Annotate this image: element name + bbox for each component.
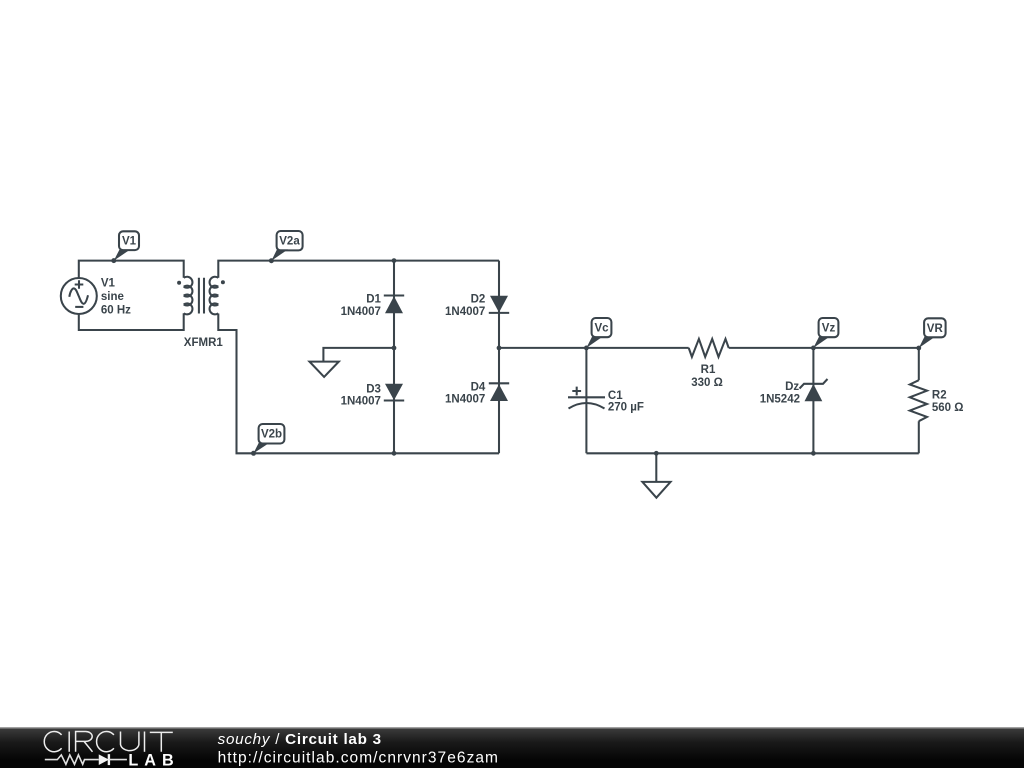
diode D2 [445,294,509,319]
wire bridge left branch [393,261,395,454]
svg-text:http://circuitlab.com/cnrvnr37: http://circuitlab.com/cnrvnr37e6zam [218,750,499,767]
svg-text:60 Hz: 60 Hz [101,304,131,316]
wire bridge right branch [498,261,500,454]
svg-text:LAB: LAB [128,752,179,768]
svg-text:560 Ω: 560 Ω [932,402,964,414]
node ground tap [654,451,659,456]
svg-text:1N4007: 1N4007 [445,306,485,318]
node Dz bottom junction [811,451,816,456]
wire primary bottom [79,313,184,330]
node junction top-left of bridge [392,258,397,263]
svg-text:Dz: Dz [785,381,799,393]
svg-text:Vz: Vz [822,323,836,335]
node VR [916,346,921,351]
net flag V1 [111,231,139,263]
svg-text:sine: sine [101,291,124,303]
svg-text:1N4007: 1N4007 [445,394,485,406]
svg-text:D1: D1 [366,294,381,306]
svg-text:R1: R1 [701,364,716,376]
node Vz [811,346,816,351]
svg-text:R2: R2 [932,389,947,401]
svg-text:Vc: Vc [594,323,609,335]
diode D1 [341,294,405,319]
net flag VR [919,318,946,348]
net flag Vz [813,318,838,348]
diode D4 [445,381,509,405]
svg-text:D4: D4 [471,381,486,393]
wire ground stub [655,453,657,482]
diode D3 [341,383,405,407]
ground (bridge) [310,362,339,377]
wire R1 to VR [729,347,919,349]
svg-text:V2b: V2b [261,429,282,441]
svg-text:D3: D3 [366,383,381,395]
svg-text:V1: V1 [101,277,116,289]
wire secondary bottom [218,314,499,454]
svg-text:souchy / Circuit lab 3: souchy / Circuit lab 3 [218,731,382,748]
CircuitLab logo CIRCUIT [44,731,173,751]
wire primary top [79,261,184,278]
wire secondary top [218,261,499,278]
net flag Vc [586,318,611,348]
svg-text:1N4007: 1N4007 [341,396,381,408]
wire bottom rail right [586,452,918,454]
svg-text:1N4007: 1N4007 [341,306,381,318]
net flag V2a [269,231,303,263]
svg-text:270 µF: 270 µF [608,402,644,414]
transformer XFMR1 [177,277,225,349]
capacitor C1 [568,348,644,453]
svg-text:1N5242: 1N5242 [760,394,800,406]
resistor R1 [689,339,729,389]
svg-text:V2a: V2a [279,236,300,248]
net flag V2b [251,424,284,456]
svg-text:VR: VR [927,323,944,335]
wire mid rail to Vc [499,347,689,349]
ground (output) [642,482,670,498]
zener diode Dz [760,348,828,453]
svg-text:330 Ω: 330 Ω [691,377,723,389]
node junction bottom-left of bridge [392,451,397,456]
resistor R2 [910,348,964,453]
FOOTER BAR [0,727,1024,768]
node junction mid-left of bridge [392,346,397,351]
label V1 value [101,277,131,316]
node Vc [584,346,589,351]
node junction mid-right of bridge [497,346,502,351]
voltage source V1 [61,278,97,314]
svg-text:D2: D2 [471,294,486,306]
CircuitLab logo resistor-diode symbol [45,754,127,765]
svg-text:XFMR1: XFMR1 [184,337,224,349]
svg-text:V1: V1 [122,236,137,248]
svg-text:C1: C1 [608,390,623,402]
wire ground tap left [323,348,394,362]
